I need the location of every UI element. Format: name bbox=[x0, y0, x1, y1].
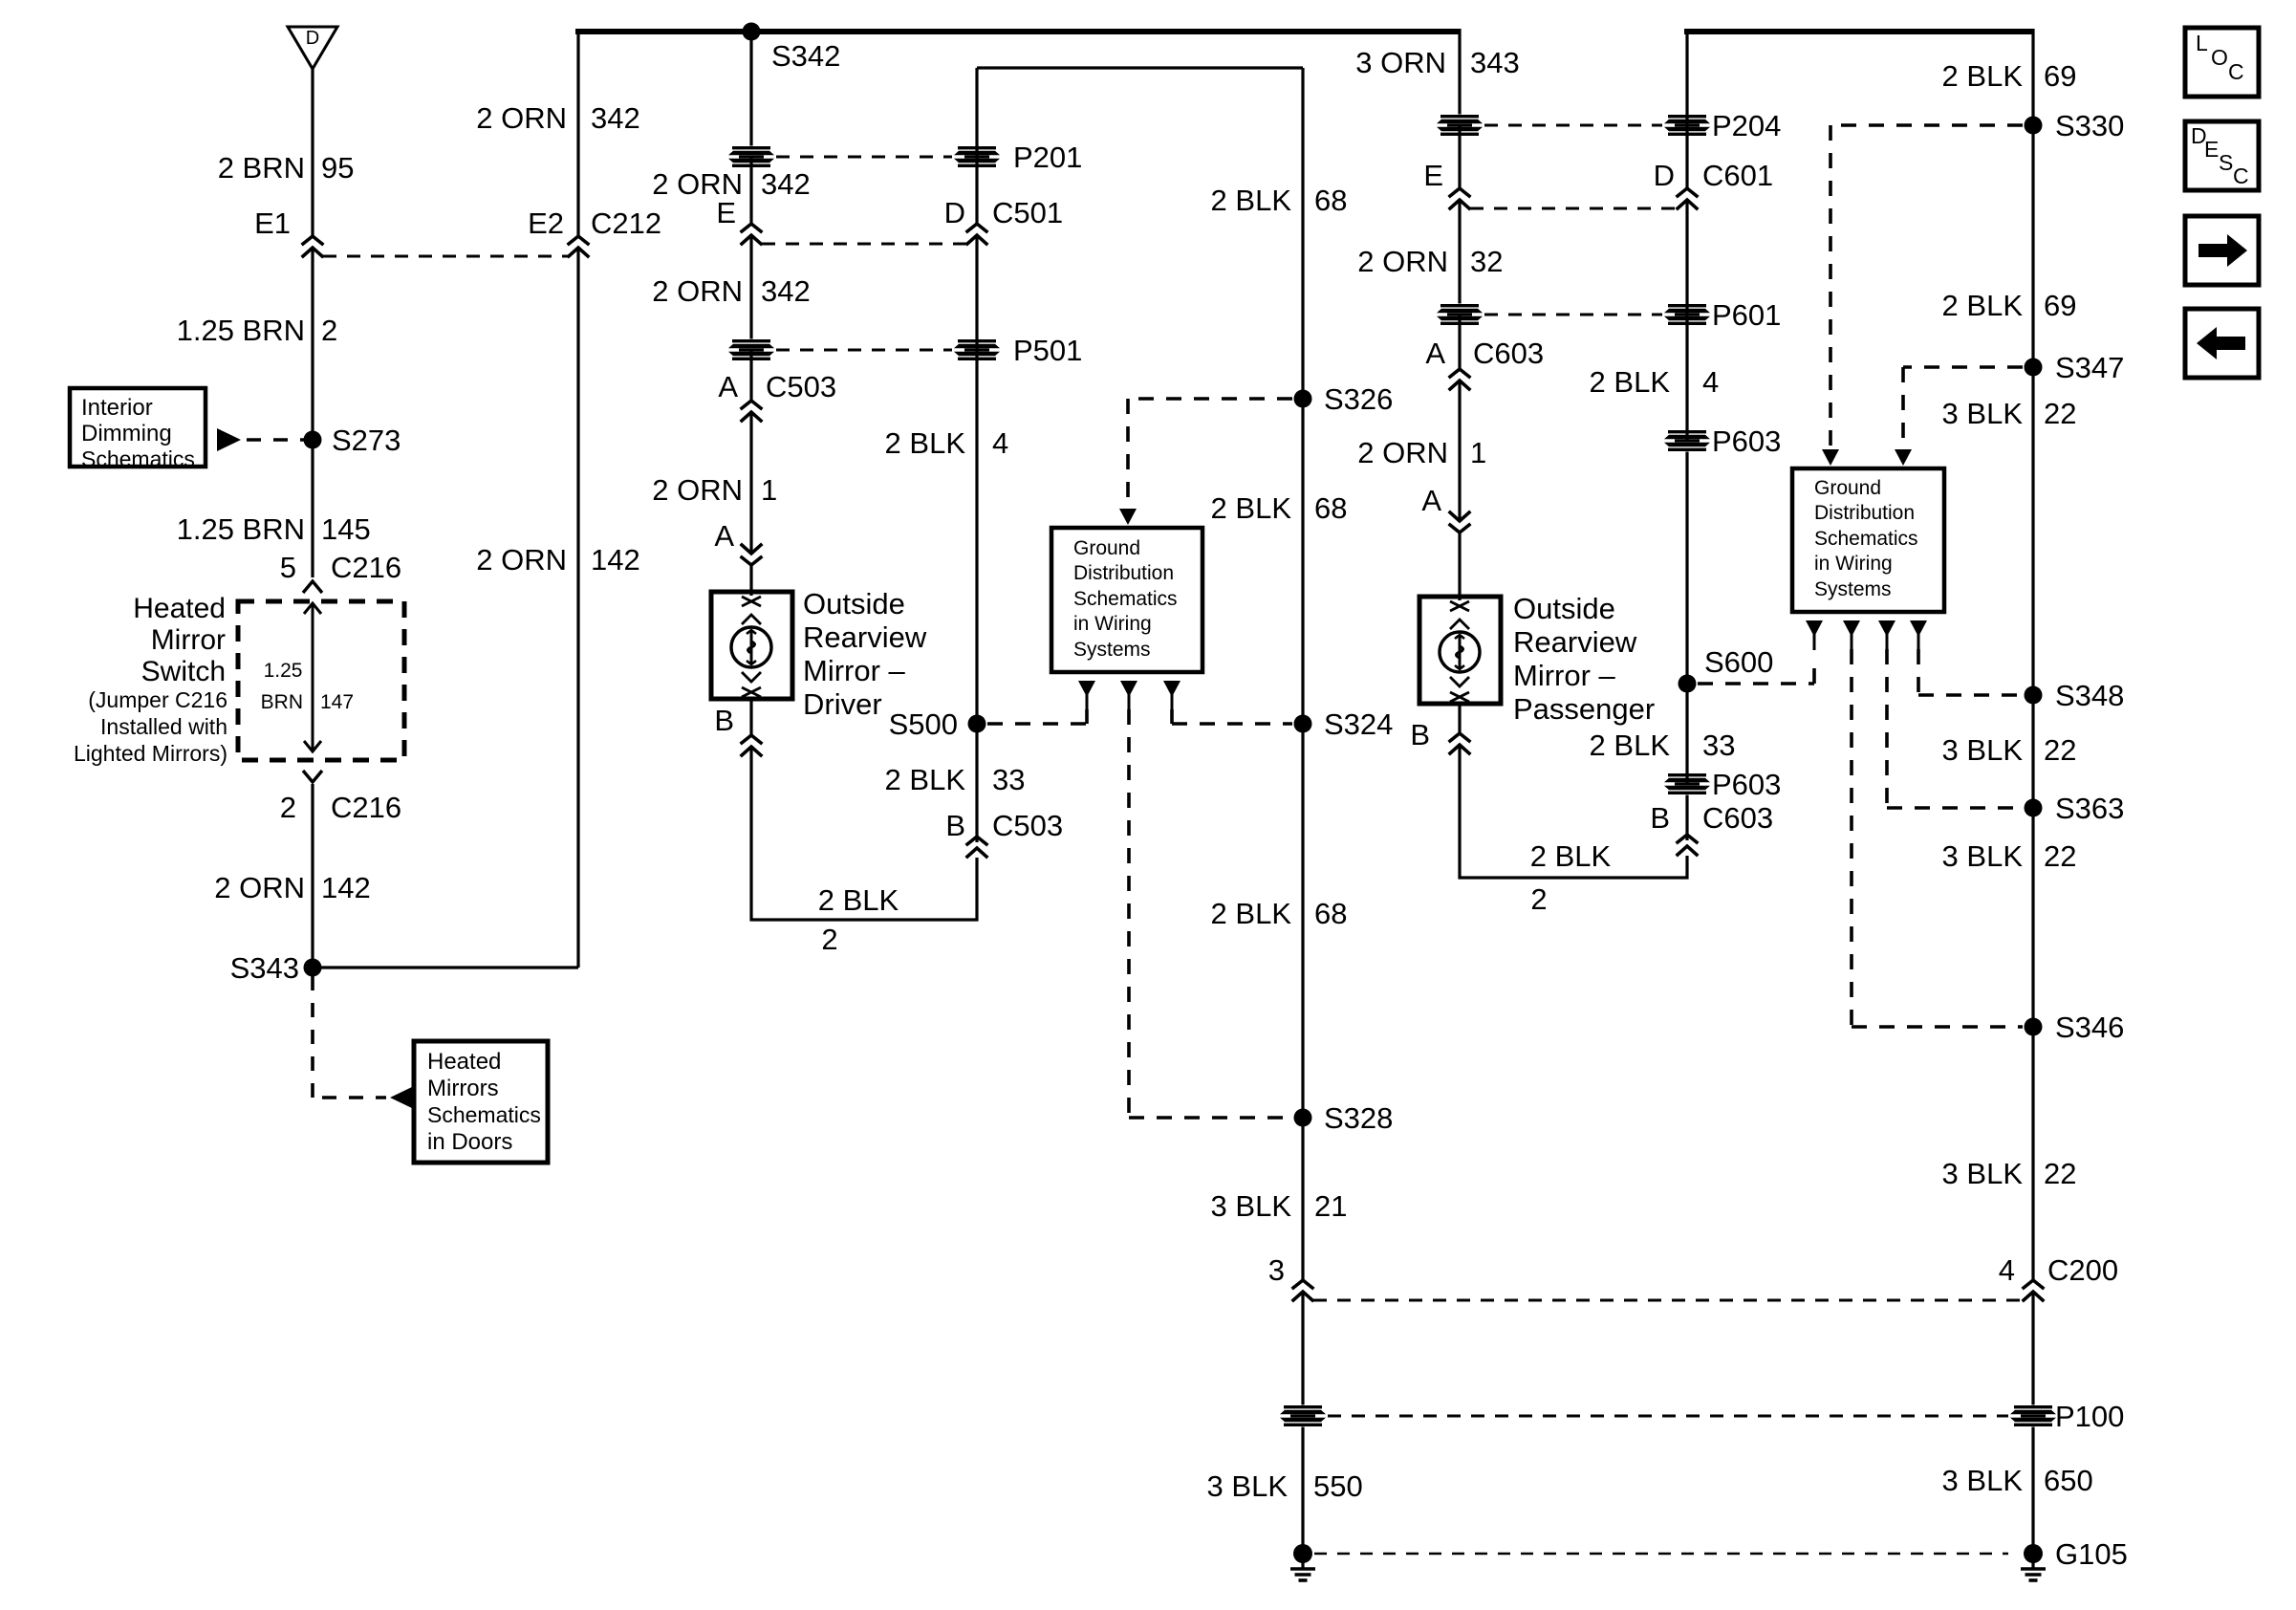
label 2 ORN 142 (riser lower) bbox=[476, 543, 639, 577]
wire 2 ORN 342 (x=786 above P201) bbox=[749, 32, 752, 157]
svg-text:E: E bbox=[716, 196, 736, 229]
label 2 ORN 342 (riser top) bbox=[476, 101, 639, 135]
svg-text:S600: S600 bbox=[1704, 645, 1773, 679]
wire 2 BLK 2 (driver) bbox=[751, 747, 977, 920]
svg-text:2 BRN: 2 BRN bbox=[218, 151, 305, 185]
arrowhead S347 into passenger ground distribution box bbox=[1895, 449, 1912, 466]
svg-text:22: 22 bbox=[2044, 397, 2076, 430]
svg-text:Distribution: Distribution bbox=[1814, 502, 1915, 524]
svg-text:3: 3 bbox=[1268, 1253, 1285, 1287]
svg-text:Schematics: Schematics bbox=[81, 446, 195, 471]
svg-text:3 BLK: 3 BLK bbox=[1942, 397, 2024, 430]
label pin A connector C503 bbox=[718, 370, 836, 403]
svg-text:2 BLK: 2 BLK bbox=[1942, 59, 2024, 93]
dashed link S600 to ground distribution bbox=[1698, 658, 1814, 684]
svg-text:Heated: Heated bbox=[427, 1049, 501, 1075]
wire x=1022 top to loop bbox=[975, 68, 978, 224]
svg-text:B: B bbox=[714, 704, 734, 737]
wire x=1527 P601 to C603 bbox=[1458, 315, 1461, 369]
svg-text:69: 69 bbox=[2044, 59, 2076, 93]
legend box DESC bbox=[2185, 121, 2259, 190]
svg-text:1.25: 1.25 bbox=[264, 660, 303, 682]
label 3 BLK 22 (second) bbox=[1942, 733, 2077, 767]
Heated Mirror Switch dashed box bbox=[238, 601, 404, 760]
svg-text:C216: C216 bbox=[331, 551, 401, 584]
svg-text:142: 142 bbox=[591, 543, 640, 577]
dashed link P204 bbox=[1484, 124, 1662, 127]
svg-text:S348: S348 bbox=[2055, 679, 2124, 712]
svg-text:5: 5 bbox=[280, 551, 296, 584]
label 2 ORN 32 bbox=[1357, 245, 1503, 278]
label Outside Rearview Mirror Passenger bbox=[1513, 592, 1655, 726]
label 2 ORN 1 (passenger) bbox=[1357, 436, 1486, 469]
label 1.25 BRN 145 bbox=[177, 512, 371, 546]
dashed link P601 bbox=[1484, 314, 1662, 316]
splice S273 bbox=[304, 431, 322, 449]
svg-text:142: 142 bbox=[321, 871, 371, 904]
svg-text:3 BLK: 3 BLK bbox=[1942, 1157, 2024, 1190]
svg-text:S347: S347 bbox=[2055, 351, 2124, 384]
svg-text:C503: C503 bbox=[992, 809, 1063, 842]
wire 1.25 BRN 145 bbox=[311, 440, 314, 577]
wire 2 ORN 1 (x=786 C503 to mirror) bbox=[749, 412, 752, 554]
dashed link S326 to ground distribution bbox=[1128, 399, 1292, 507]
connector C216 pin 5 (half above switch) bbox=[303, 581, 322, 593]
svg-text:145: 145 bbox=[321, 512, 371, 546]
arrow into Heated Mirrors box bbox=[390, 1086, 414, 1109]
svg-text:S330: S330 bbox=[2055, 109, 2124, 142]
svg-text:1: 1 bbox=[761, 473, 777, 507]
dashed link C200 bbox=[1313, 1299, 2023, 1302]
svg-text:S328: S328 bbox=[1324, 1101, 1393, 1135]
label (Jumper C216 Installed with Lighted Mirrors) bbox=[74, 687, 227, 766]
svg-text:E: E bbox=[1423, 159, 1443, 192]
svg-text:E: E bbox=[2204, 137, 2219, 162]
svg-text:Schematics: Schematics bbox=[1073, 588, 1178, 610]
dashed link triangle 2 to S346 bbox=[1852, 649, 2023, 1027]
svg-text:A: A bbox=[718, 370, 738, 403]
grommet P204 left half bbox=[1437, 115, 1483, 137]
connector C200 pin 4 bbox=[2024, 1280, 2043, 1300]
grommet P601 right half bbox=[1664, 304, 1710, 326]
dashed link E1-E2 bbox=[323, 255, 568, 258]
svg-text:550: 550 bbox=[1313, 1469, 1363, 1503]
label 1.25 BRN 147 inside switch bbox=[261, 660, 354, 713]
svg-text:2 BLK: 2 BLK bbox=[1942, 289, 2024, 322]
svg-text:D: D bbox=[944, 196, 965, 229]
dashed link triangle 4 to S348 bbox=[1918, 649, 2023, 695]
splice S363 bbox=[2025, 799, 2043, 817]
svg-text:2 ORN: 2 ORN bbox=[1357, 436, 1448, 469]
svg-text:2 BLK: 2 BLK bbox=[1590, 729, 1671, 762]
connector C503 pin A bbox=[742, 401, 761, 421]
svg-text:P601: P601 bbox=[1712, 298, 1781, 332]
wire x=1765 C603 to P603 bbox=[1685, 784, 1688, 840]
svg-text:2 ORN: 2 ORN bbox=[476, 543, 567, 577]
svg-text:BRN: BRN bbox=[261, 691, 303, 713]
svg-text:A: A bbox=[714, 519, 734, 553]
svg-text:4: 4 bbox=[1999, 1253, 2015, 1287]
svg-text:Outside: Outside bbox=[803, 587, 905, 620]
wire 2 BLK 2 (passenger) bbox=[1460, 745, 1687, 878]
dashed link to S273 bbox=[247, 438, 304, 442]
wire 2 ORN 142 (x=327 lower) bbox=[311, 784, 314, 968]
svg-text:C501: C501 bbox=[992, 196, 1063, 229]
dashed link P501 bbox=[776, 349, 952, 352]
svg-text:C503: C503 bbox=[766, 370, 836, 403]
label pin D connector C601 bbox=[1654, 159, 1774, 192]
svg-text:A: A bbox=[1425, 337, 1445, 370]
wire 2 BLK 33 (x=1765) bbox=[1685, 684, 1688, 784]
splice S324 bbox=[1294, 715, 1312, 733]
dashed link C501 bbox=[762, 243, 966, 246]
wire x=1765 S600 to P603 upper bbox=[1685, 441, 1688, 684]
wire 2 ORN 32 bbox=[1458, 200, 1461, 315]
wire x=1765 top bbox=[1685, 32, 1688, 188]
svg-text:4: 4 bbox=[1702, 365, 1719, 399]
svg-text:S273: S273 bbox=[332, 424, 401, 457]
label 2 ORN 1 bbox=[652, 473, 777, 507]
connector pin B passenger mirror bbox=[1450, 733, 1469, 753]
svg-text:P204: P204 bbox=[1712, 109, 1781, 142]
splice S500 bbox=[968, 715, 986, 733]
svg-text:2: 2 bbox=[280, 791, 296, 824]
svg-text:Mirror –: Mirror – bbox=[803, 654, 906, 687]
svg-text:in Wiring: in Wiring bbox=[1073, 613, 1152, 635]
box Ground Distribution Schematics in Wiring Systems (passenger) bbox=[1792, 468, 1944, 612]
svg-text:B: B bbox=[1650, 801, 1670, 835]
arrow from Interior Dimming box bbox=[217, 428, 241, 451]
svg-text:32: 32 bbox=[1470, 245, 1503, 278]
svg-text:3 BLK: 3 BLK bbox=[1207, 1469, 1289, 1503]
svg-text:Installed with: Installed with bbox=[100, 714, 227, 739]
label E2 C212 bbox=[528, 207, 661, 240]
svg-text:G105: G105 bbox=[2055, 1537, 2128, 1571]
grommet P501 right half bbox=[954, 339, 1000, 361]
svg-text:C200: C200 bbox=[2047, 1253, 2118, 1287]
svg-text:Schematics: Schematics bbox=[1814, 528, 1918, 550]
svg-text:343: 343 bbox=[1470, 46, 1520, 79]
dashed link grounds bbox=[1314, 1553, 2008, 1556]
svg-text:Ground: Ground bbox=[1073, 537, 1140, 559]
svg-text:S324: S324 bbox=[1324, 707, 1393, 741]
svg-text:Distribution: Distribution bbox=[1073, 562, 1174, 584]
svg-text:2: 2 bbox=[821, 923, 837, 956]
arrowhead S330 into passenger ground distribution box bbox=[1822, 449, 1839, 466]
ground distribution driver exit triangles bbox=[1078, 681, 1095, 710]
svg-text:P603: P603 bbox=[1712, 424, 1781, 458]
svg-text:S326: S326 bbox=[1324, 382, 1393, 416]
box Ground Distribution Schematics in Wiring Systems (driver) bbox=[1051, 528, 1202, 672]
ground symbol left bbox=[1290, 1544, 1315, 1580]
label 3 BLK 22 (fourth) bbox=[1942, 1157, 2077, 1190]
svg-text:C: C bbox=[2233, 163, 2249, 188]
wire x=1765 P603 to C601 bbox=[1685, 200, 1688, 441]
label 3 BLK 650 bbox=[1942, 1464, 2093, 1497]
svg-text:342: 342 bbox=[761, 274, 811, 308]
svg-text:S342: S342 bbox=[771, 39, 840, 73]
splice S600 bbox=[1679, 675, 1697, 693]
wire S343 to 2 ORN 142 riser bbox=[313, 966, 578, 968]
svg-text:Rearview: Rearview bbox=[803, 620, 927, 654]
label 2 BLK 68 (third) bbox=[1211, 897, 1348, 930]
wire 2 ORN 342 (x=786 P201 to C501) bbox=[749, 157, 752, 224]
svg-text:S: S bbox=[2219, 150, 2233, 175]
wire 2 ORN 1 (passenger) bbox=[1458, 381, 1461, 521]
grommet P603 upper bbox=[1664, 430, 1710, 452]
top feed wire 342 (y=33) bbox=[575, 29, 1460, 34]
label pin 5 connector C216 bbox=[280, 551, 401, 584]
svg-text:E2: E2 bbox=[528, 207, 564, 240]
svg-text:Systems: Systems bbox=[1814, 578, 1892, 600]
label pin A connector C603 bbox=[1425, 337, 1544, 370]
wire 2 BLK 68 / 3 BLK 21 (x=1363) bbox=[1301, 68, 1304, 1280]
svg-text:O: O bbox=[2211, 45, 2228, 70]
wire 2 ORN 142 riser lower (x=605) bbox=[576, 248, 579, 968]
svg-text:Mirror: Mirror bbox=[151, 624, 226, 656]
svg-text:2 BLK: 2 BLK bbox=[1211, 491, 1292, 525]
page reference triangle D bbox=[288, 27, 337, 69]
svg-text:2 BLK: 2 BLK bbox=[1211, 184, 1292, 217]
label 2 BLK 69 (second) bbox=[1942, 289, 2077, 322]
label 2 ORN 142 bbox=[214, 871, 370, 904]
svg-text:21: 21 bbox=[1314, 1189, 1347, 1223]
svg-text:2 ORN: 2 ORN bbox=[1357, 245, 1448, 278]
splice S328 bbox=[1294, 1109, 1312, 1127]
label 2 BLK 4 (passenger) bbox=[1590, 365, 1720, 399]
connector C601 pin E bbox=[1450, 188, 1469, 208]
splice S346 bbox=[2025, 1018, 2043, 1036]
dashed link S343 to Heated Mirrors box bbox=[313, 976, 386, 1098]
svg-text:3 BLK: 3 BLK bbox=[1942, 839, 2024, 873]
label 2 ORN 342 (above P501) bbox=[652, 274, 810, 308]
dashed link P201 bbox=[776, 156, 952, 159]
svg-text:L: L bbox=[2196, 31, 2208, 55]
svg-text:342: 342 bbox=[591, 101, 640, 135]
label 2 BLK 68 (first) bbox=[1211, 184, 1348, 217]
wire x=1527 P204 to C601 bbox=[1458, 125, 1461, 188]
svg-text:2 ORN: 2 ORN bbox=[214, 871, 305, 904]
svg-text:C212: C212 bbox=[591, 207, 661, 240]
svg-text:3 BLK: 3 BLK bbox=[1942, 1464, 2024, 1497]
grommet P601 left half bbox=[1437, 304, 1483, 326]
svg-text:2 BLK: 2 BLK bbox=[885, 426, 966, 460]
wire 1.25 BRN 2 bbox=[311, 248, 314, 440]
svg-text:P100: P100 bbox=[2055, 1400, 2124, 1433]
svg-text:2 BLK: 2 BLK bbox=[818, 883, 899, 917]
grommet P100 right half bbox=[2010, 1405, 2056, 1427]
wire into passenger mirror box bbox=[1458, 533, 1461, 600]
dashed link S500 to ground distribution and S324 bbox=[987, 709, 1292, 1118]
label 2 ORN 342 (below P201) bbox=[652, 167, 810, 201]
svg-text:3 BLK: 3 BLK bbox=[1942, 733, 2024, 767]
svg-text:2 BLK: 2 BLK bbox=[885, 763, 966, 796]
svg-text:2 ORN: 2 ORN bbox=[476, 101, 567, 135]
svg-text:Dimming: Dimming bbox=[81, 421, 172, 446]
label 2 BRN 95 bbox=[218, 151, 355, 185]
svg-text:P603: P603 bbox=[1712, 768, 1781, 801]
label Heated Mirror Switch bbox=[133, 593, 226, 687]
label 2 BLK 2 (passenger) bbox=[1530, 839, 1612, 916]
svg-text:Lighted Mirrors): Lighted Mirrors) bbox=[74, 741, 227, 766]
passenger loop top wire (y=33) bbox=[1684, 29, 2033, 34]
splice S347 bbox=[2025, 359, 2043, 377]
svg-text:22: 22 bbox=[2044, 1157, 2076, 1190]
passenger mirror heater element bbox=[1440, 632, 1480, 672]
svg-text:4: 4 bbox=[992, 426, 1008, 460]
svg-text:Mirror –: Mirror – bbox=[1513, 659, 1616, 692]
box Interior Dimming Schematics bbox=[70, 388, 206, 471]
label pin 4 connector C200 bbox=[1999, 1253, 2118, 1287]
svg-text:22: 22 bbox=[2044, 839, 2076, 873]
label Outside Rearview Mirror Driver bbox=[803, 587, 927, 721]
driver mirror heater element bbox=[731, 627, 771, 667]
svg-text:2 BLK: 2 BLK bbox=[1211, 897, 1292, 930]
svg-text:Outside: Outside bbox=[1513, 592, 1615, 625]
wire 2 ORN 342 (x=786 C501 to P501) bbox=[749, 235, 752, 350]
svg-text:Systems: Systems bbox=[1073, 639, 1151, 661]
svg-text:33: 33 bbox=[992, 763, 1025, 796]
label 2 BLK 33 (passenger) bbox=[1590, 729, 1736, 762]
svg-text:C603: C603 bbox=[1473, 337, 1544, 370]
svg-text:B: B bbox=[945, 809, 965, 842]
svg-text:C601: C601 bbox=[1702, 159, 1773, 192]
svg-text:3 BLK: 3 BLK bbox=[1211, 1189, 1292, 1223]
svg-text:S346: S346 bbox=[2055, 1011, 2124, 1044]
splice S342 bbox=[743, 23, 761, 41]
legend box arrow left bbox=[2185, 309, 2259, 378]
label pin B connector C503 bbox=[945, 809, 1063, 842]
svg-text:2 BLK: 2 BLK bbox=[1590, 365, 1671, 399]
splice S348 bbox=[2025, 686, 2043, 705]
svg-text:68: 68 bbox=[1314, 184, 1347, 217]
svg-text:B: B bbox=[1410, 718, 1430, 751]
arrowhead into driver ground distribution box bbox=[1119, 509, 1137, 525]
label 3 BLK 22 (first) bbox=[1942, 397, 2077, 430]
svg-text:D: D bbox=[306, 28, 319, 49]
component Outside Rearview Mirror Passenger box bbox=[1419, 597, 1501, 704]
svg-text:1.25 BRN: 1.25 BRN bbox=[177, 314, 305, 347]
label 2 BLK 2 (driver) bbox=[818, 883, 899, 956]
label pin 2 connector C216 bbox=[280, 791, 401, 824]
svg-text:Passenger: Passenger bbox=[1513, 692, 1655, 726]
wire into driver mirror box bbox=[749, 565, 752, 596]
connector C601 pin D bbox=[1678, 188, 1697, 208]
svg-text:Heated: Heated bbox=[133, 593, 226, 624]
svg-text:E1: E1 bbox=[254, 207, 291, 240]
dashed link triangle 3 to S363 bbox=[1887, 649, 2023, 808]
svg-text:Ground: Ground bbox=[1814, 477, 1881, 499]
wire x=786 P501 to C503 bbox=[749, 350, 752, 401]
svg-text:Interior: Interior bbox=[81, 395, 153, 421]
grommet P603 lower bbox=[1664, 773, 1710, 795]
svg-text:Schematics: Schematics bbox=[427, 1102, 541, 1127]
connector pin A into passenger mirror bbox=[1450, 512, 1469, 533]
component Outside Rearview Mirror Driver box bbox=[711, 592, 792, 699]
svg-text:S363: S363 bbox=[2055, 792, 2124, 825]
label 2 BLK 68 (second) bbox=[1211, 491, 1348, 525]
svg-text:650: 650 bbox=[2044, 1464, 2093, 1497]
label 3 BLK 550 bbox=[1207, 1469, 1363, 1503]
driver mirror internal connector marks bbox=[742, 597, 761, 697]
connector C501 pin E bbox=[742, 224, 761, 244]
svg-text:2: 2 bbox=[1530, 882, 1547, 916]
box Heated Mirrors Schematics in Doors bbox=[414, 1041, 548, 1163]
loop wire 2 BLK 68 top (y=71) bbox=[977, 66, 1303, 69]
svg-text:C603: C603 bbox=[1702, 801, 1773, 835]
svg-text:C216: C216 bbox=[331, 791, 401, 824]
svg-text:in Doors: in Doors bbox=[427, 1129, 512, 1155]
connector C501 pin D bbox=[967, 224, 986, 244]
svg-text:68: 68 bbox=[1314, 897, 1347, 930]
grommet P201 right half bbox=[954, 146, 1000, 168]
label 2 BLK 33 (driver) bbox=[885, 763, 1026, 796]
svg-text:1.25 BRN: 1.25 BRN bbox=[177, 512, 305, 546]
svg-text:A: A bbox=[1421, 484, 1441, 517]
dashed link C601 bbox=[1470, 207, 1677, 210]
svg-text:33: 33 bbox=[1702, 729, 1735, 762]
wire 2 BRN 95 (x=327 upper) bbox=[311, 69, 314, 236]
svg-text:22: 22 bbox=[2044, 733, 2076, 767]
svg-text:2 ORN: 2 ORN bbox=[652, 473, 743, 507]
ground distribution passenger exit triangles bbox=[1806, 620, 1823, 650]
label 3 BLK 21 bbox=[1211, 1189, 1348, 1223]
label 1.25 BRN 2 bbox=[177, 314, 338, 347]
connector C212 pin E1 bbox=[303, 236, 322, 256]
connector C212 pin E2 bbox=[569, 236, 588, 256]
passenger mirror internal connector marks bbox=[1450, 601, 1469, 702]
label 3 ORN 343 bbox=[1355, 46, 1519, 79]
svg-text:1: 1 bbox=[1470, 436, 1486, 469]
wire from passenger mirror box bbox=[1458, 704, 1461, 732]
svg-text:2: 2 bbox=[321, 314, 337, 347]
legend box LOC bbox=[2185, 28, 2259, 97]
connector pin A into driver mirror bbox=[742, 545, 761, 565]
wire 2 BLK 4 (x=1022 upper) bbox=[975, 235, 978, 724]
svg-text:3 ORN: 3 ORN bbox=[1355, 46, 1446, 79]
svg-text:Rearview: Rearview bbox=[1513, 625, 1637, 659]
splice S326 bbox=[1294, 390, 1312, 408]
label pin B connector C603 bbox=[1650, 801, 1773, 835]
dashed link P100 bbox=[1328, 1415, 2008, 1418]
wire 3 BLK 550 (x=1363 lower) bbox=[1301, 1292, 1304, 1551]
connector C603 pin A bbox=[1450, 369, 1469, 389]
ground G105 bbox=[2021, 1544, 2046, 1580]
svg-text:Mirrors: Mirrors bbox=[427, 1076, 499, 1101]
svg-text:Driver: Driver bbox=[803, 687, 882, 721]
svg-text:S500: S500 bbox=[889, 707, 958, 741]
svg-text:P501: P501 bbox=[1013, 334, 1082, 367]
svg-text:in Wiring: in Wiring bbox=[1814, 553, 1893, 575]
wire 2 BLK 69 (x=2127) bbox=[2031, 29, 2034, 1280]
grommet P501 left half bbox=[728, 339, 774, 361]
wire 3 BLK 650 (x=2127 lower) bbox=[2031, 1292, 2034, 1551]
connector C200 pin 3 bbox=[1293, 1280, 1312, 1300]
switch jumper wire 1.25 BRN 147 with arrows bbox=[304, 603, 321, 751]
wire 2 ORN 342 riser upper (x=605) bbox=[576, 32, 579, 236]
label pin D connector C501 bbox=[944, 196, 1064, 229]
wire 2 BLK 33 (x=1022) bbox=[975, 724, 978, 842]
grommet P100 left half bbox=[1280, 1405, 1326, 1427]
svg-text:(Jumper C216: (Jumper C216 bbox=[88, 687, 227, 712]
dashed link S347 to ground distribution bbox=[1903, 367, 2023, 447]
svg-text:68: 68 bbox=[1314, 491, 1347, 525]
connector C503 pin B bbox=[967, 837, 986, 857]
label 3 BLK 22 (third) bbox=[1942, 839, 2077, 873]
wire from driver mirror box bbox=[749, 699, 752, 734]
svg-text:147: 147 bbox=[320, 691, 354, 713]
label 2 BLK 69 (first) bbox=[1942, 59, 2077, 93]
